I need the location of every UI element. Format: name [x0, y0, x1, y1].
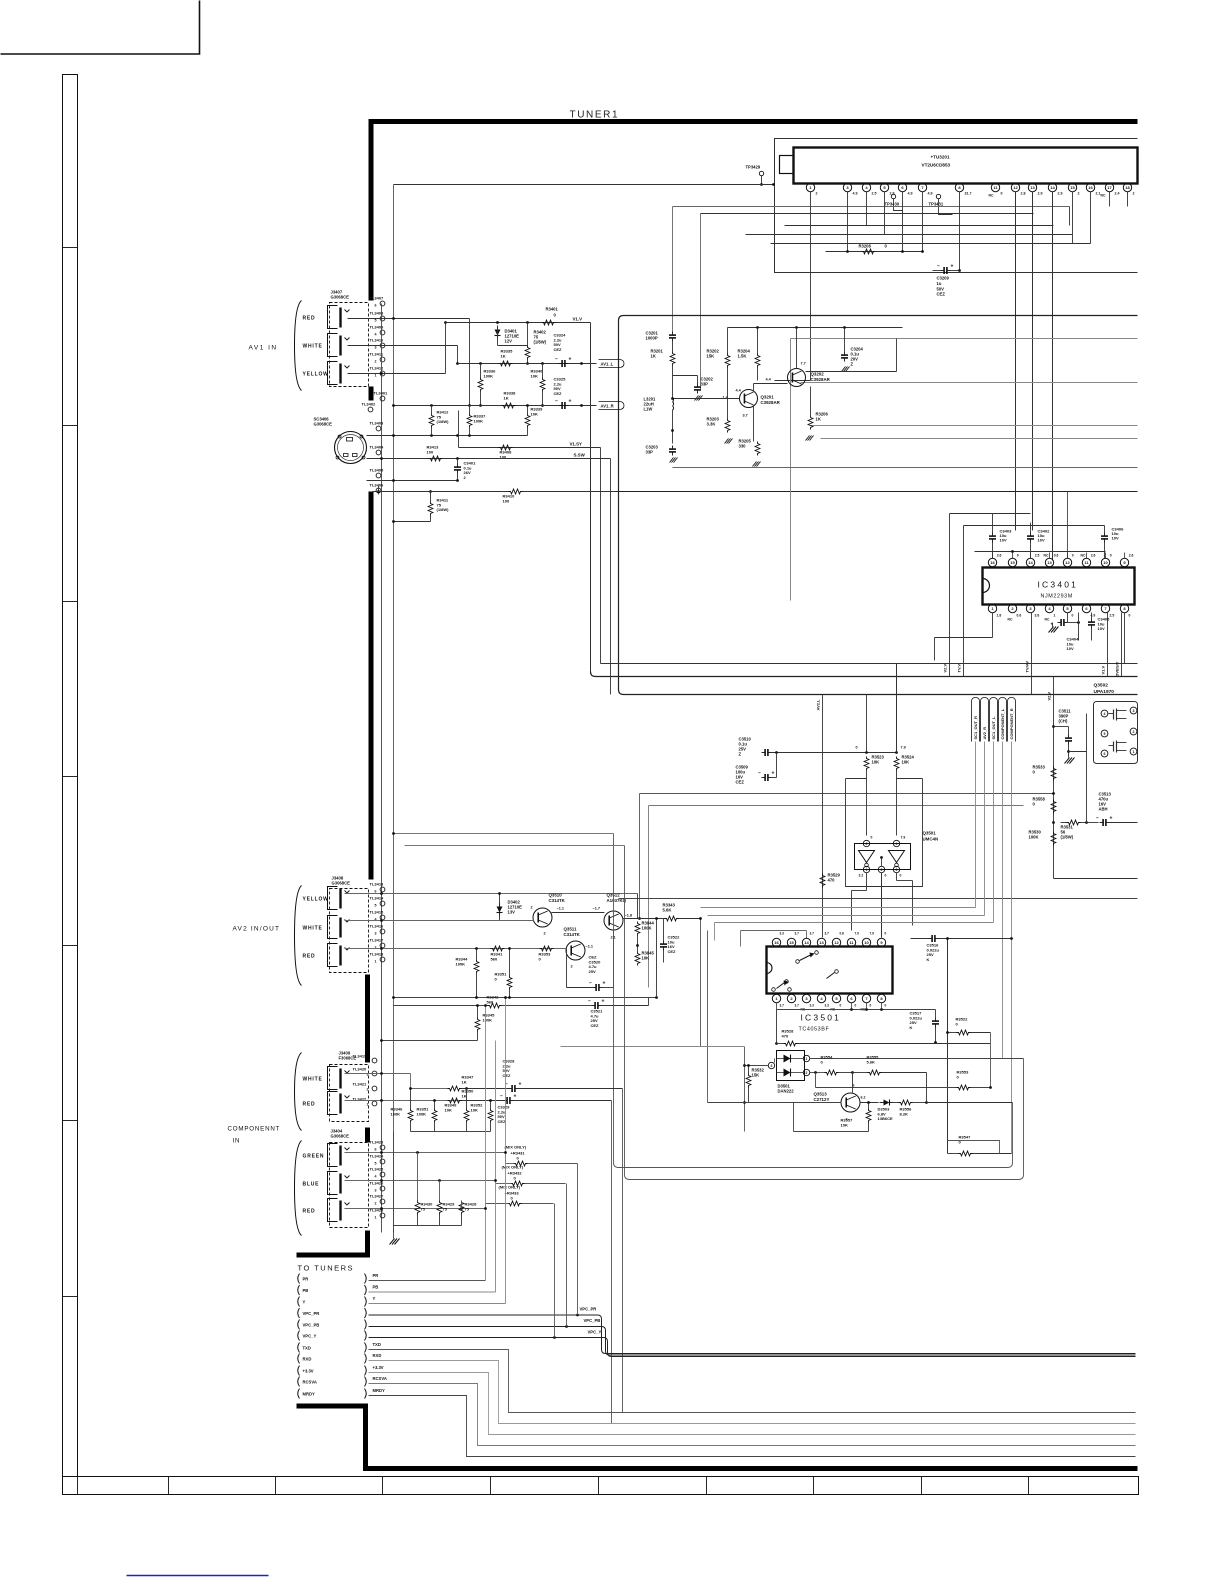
resistor R3523 10K [864, 757, 869, 771]
Q3502 right pin 1 [1130, 748, 1137, 755]
diode D3401 12710E 12V [495, 330, 501, 336]
svg-text:4.4: 4.4 [766, 378, 772, 382]
svg-text:3.2: 3.2 [859, 874, 864, 878]
svg-text:3.3K: 3.3K [707, 422, 716, 427]
wire tuner bus y251 [826, 251, 923, 253]
Q3501 outer loop [846, 779, 923, 887]
block border left bottom segment [363, 1404, 368, 1469]
IC3501 pin 5 [832, 994, 840, 1002]
wire PR [369, 1280, 486, 1282]
block border left segment 3 [369, 492, 374, 880]
svg-text:3.3: 3.3 [810, 1004, 815, 1008]
svg-text:L1W: L1W [644, 407, 653, 412]
IC3501 pin 3 [802, 994, 810, 1002]
node VPC_PR bracket left [298, 1308, 300, 1318]
wire comp green row [345, 1152, 506, 1154]
resistor R3408 100 [499, 445, 513, 450]
wire AV1 white row [348, 345, 458, 347]
svg-text:TL3415: TL3415 [370, 910, 385, 915]
svg-text:WHITE: WHITE [303, 926, 323, 932]
wire supply rail y327 [728, 327, 903, 329]
svg-text:2: 2 [1133, 192, 1135, 196]
block border left segment 1 [369, 120, 374, 301]
wire TV.V vertical [963, 526, 965, 677]
svg-text:RED: RED [303, 316, 316, 322]
tuner pin 12 [1011, 183, 1019, 191]
svg-text:−: − [588, 999, 591, 1005]
svg-text:2.6: 2.6 [1129, 554, 1134, 558]
Q3501 pin 2 [878, 866, 884, 872]
wire pin6 down [902, 192, 904, 252]
block border left segment 5 [365, 1128, 370, 1143]
svg-text:5: 5 [1104, 732, 1106, 736]
svg-text:RCSVA: RCSVA [373, 1376, 387, 1381]
net tag COMPONENT_L [999, 698, 1007, 742]
svg-text:TL3423: TL3423 [370, 1140, 385, 1145]
svg-text:TL3403: TL3403 [370, 421, 385, 426]
svg-text:−: − [1096, 816, 1099, 822]
svg-text:1: 1 [1054, 614, 1056, 618]
svg-text:(1/8W): (1/8W) [437, 507, 450, 512]
strip divider [1028, 1477, 1030, 1495]
svg-text:CEZ: CEZ [498, 1119, 507, 1124]
svg-text:3.7: 3.7 [795, 932, 800, 936]
node VPC_PB bracket left [298, 1320, 300, 1330]
tuner pin 4 [862, 183, 870, 191]
wire V1.V vertical [1107, 613, 1109, 677]
svg-text:TL3427: TL3427 [370, 1194, 385, 1199]
svg-text:+: + [519, 1082, 522, 1088]
IC3501 pin 11 [847, 938, 855, 946]
wire Y [369, 1303, 506, 1305]
wire tag drop x984 [984, 742, 986, 916]
svg-text:100K: 100K [391, 1111, 401, 1116]
svg-text:TL3417: TL3417 [370, 938, 385, 943]
svg-text:2.5: 2.5 [1110, 614, 1115, 618]
ruler tick [63, 601, 78, 603]
block border notch top of TO TUNERS [297, 1253, 371, 1258]
svg-text:DAN222: DAN222 [778, 1089, 795, 1094]
tuner module side notch [780, 156, 794, 174]
svg-text:0: 0 [1129, 614, 1131, 618]
wire tuner bus y234 [746, 234, 1073, 236]
wire pin1 down [810, 192, 812, 381]
wire AV1_R row y405 [394, 405, 597, 407]
wire pin5 stub [1067, 613, 1069, 623]
ruler tick [63, 425, 78, 427]
ground R3205 [753, 462, 757, 467]
IC3501 pin 13 [817, 938, 825, 946]
svg-text:AV2 IN/OUT: AV2 IN/OUT [233, 926, 281, 933]
capacitor C3405 10u 10V [1088, 621, 1095, 623]
svg-text:1K: 1K [504, 395, 509, 400]
svg-text:2.5: 2.5 [872, 192, 877, 196]
svg-text:4: 4 [367, 1060, 369, 1064]
resistor R3529 470 [820, 874, 825, 888]
svg-text:VPC_PB: VPC_PB [303, 1322, 320, 1327]
Q3501 pin 4 [893, 840, 899, 846]
svg-text:13: 13 [1030, 185, 1035, 190]
node RCSVA bracket left [298, 1377, 300, 1387]
svg-text:Q3501: Q3501 [923, 831, 937, 836]
svg-text:RCSVA: RCSVA [303, 1379, 317, 1384]
svg-text:2.6: 2.6 [997, 554, 1002, 558]
bottom revision strip [63, 1477, 1139, 1495]
svg-text:75: 75 [465, 1206, 470, 1211]
blue footer line [127, 1575, 269, 1577]
svg-text:75: 75 [443, 1206, 448, 1211]
svg-text:RED: RED [303, 1102, 316, 1108]
wire loop gray y915 [708, 915, 985, 917]
capacitor C3406 10u 10V [1101, 535, 1108, 537]
svg-text:Z: Z [739, 752, 742, 757]
svg-text:WHITE: WHITE [303, 1077, 323, 1083]
capacitor C3329 2.2u 50V [506, 1097, 508, 1104]
TUNER1 block border top [369, 119, 1138, 124]
net tag AV1_L [599, 360, 625, 368]
svg-text:TV/AV: TV/AV [1025, 661, 1030, 673]
IC3501 pin 1 [772, 994, 780, 1002]
wire tuner bus y213 [701, 213, 1034, 215]
svg-text:13V: 13V [508, 910, 516, 915]
svg-text:+: + [514, 1094, 517, 1100]
svg-text:PB: PB [303, 1288, 309, 1293]
resistor R3845 10K [635, 952, 640, 966]
node PR bracket left [298, 1274, 300, 1284]
wire tag drop x975 [975, 742, 977, 908]
svg-text:0.6: 0.6 [1017, 614, 1022, 618]
svg-text:4.9: 4.9 [928, 192, 933, 196]
diode D3402 12710E 13V [497, 907, 503, 913]
svg-text:0: 0 [1001, 192, 1003, 196]
node VPC_Y bracket left [298, 1331, 300, 1341]
svg-text:+3.3V: +3.3V [373, 1365, 384, 1370]
svg-text:CEZ: CEZ [554, 391, 563, 396]
svg-text:Z: Z [851, 362, 854, 367]
Q3502 pin 6 [1101, 750, 1108, 757]
wire sv row y435 [367, 435, 528, 437]
svg-text:+: + [569, 357, 572, 363]
svg-text:2: 2 [816, 192, 818, 196]
svg-text:G3068CE: G3068CE [331, 1134, 350, 1139]
Q3502 right pin 2 [1130, 728, 1137, 735]
wire y1046 gray [561, 1046, 745, 1048]
svg-text:(M/X ONLY): (M/X ONLY) [505, 1145, 527, 1150]
tuner pin 5 [880, 183, 888, 191]
svg-text:16: 16 [1088, 185, 1093, 190]
wire y1040 bus [382, 1040, 478, 1042]
wire tag drop x1002 [1002, 742, 1004, 1059]
svg-text:10K: 10K [471, 1107, 478, 1112]
svg-text:(M/X ONLY): (M/X ONLY) [499, 1185, 521, 1190]
wire V2.V vertical [949, 514, 951, 677]
svg-text:TP3431: TP3431 [929, 202, 944, 207]
wire Q3510 emitter row [552, 912, 605, 914]
svg-text:10K: 10K [902, 760, 910, 765]
block border bottom [363, 1466, 1138, 1471]
svg-text:Q3202: Q3202 [811, 372, 825, 377]
svg-text:−1.1: −1.1 [557, 907, 565, 911]
svg-text:MRDY: MRDY [303, 1391, 316, 1396]
svg-text:2.6: 2.6 [1091, 554, 1096, 558]
svg-text:33P: 33P [701, 382, 709, 387]
svg-text:+TU3201: +TU3201 [931, 155, 950, 160]
diode D3503 6.8V [884, 1100, 890, 1106]
svg-text:6: 6 [375, 1148, 377, 1152]
capacitor C3402 10u 10V [1027, 535, 1034, 537]
wire gray right y425 [811, 425, 1138, 427]
wire L3201 junction [672, 342, 674, 352]
svg-text:2: 2 [806, 1071, 808, 1075]
IC3401 pin 10 [1101, 558, 1109, 566]
capacitor C3204 0.1u [841, 354, 848, 356]
IC3501 pin 6 [847, 994, 855, 1002]
IC3401 pin 9 [1120, 558, 1128, 566]
wire pin18 down [1127, 192, 1129, 207]
IC3501 pin 15 [787, 938, 795, 946]
ruler tick [63, 776, 78, 778]
svg-text:10K: 10K [642, 956, 650, 961]
strip divider [598, 1477, 600, 1495]
svg-text:18: 18 [1125, 185, 1130, 190]
svg-text:VT2U6CD853: VT2U6CD853 [922, 163, 951, 168]
svg-text:1: 1 [375, 1216, 377, 1220]
svg-text:33P: 33P [646, 450, 654, 455]
svg-text:TL3418: TL3418 [370, 952, 385, 957]
IC3501 pin 9 [877, 938, 885, 946]
svg-text:VPC_PB: VPC_PB [584, 1318, 601, 1323]
title block box top-left [1, 1, 200, 55]
wire +3.3V [369, 1373, 1136, 1435]
svg-text:560: 560 [491, 956, 498, 961]
svg-text:PR: PR [303, 1276, 309, 1281]
svg-text:(1/8W): (1/8W) [437, 419, 450, 424]
svg-text:TL3419: TL3419 [353, 1054, 368, 1059]
svg-text:3.7: 3.7 [795, 1004, 800, 1008]
wire cap rail y551 [975, 551, 1106, 553]
IC3501 pin 7 [862, 994, 870, 1002]
svg-text:Y: Y [303, 1299, 306, 1304]
wire x947 down [947, 939, 949, 1154]
signal loop rect D [625, 846, 1024, 1180]
svg-text:0.6: 0.6 [840, 932, 845, 936]
svg-text:TL3421: TL3421 [353, 1082, 368, 1087]
svg-text:10V: 10V [1000, 538, 1007, 543]
svg-text:BLUE: BLUE [303, 1182, 320, 1188]
wire S.SW drop x610 [610, 459, 612, 695]
wire pin8 down [959, 192, 961, 271]
svg-text:K: K [927, 957, 930, 962]
wire y1087 [816, 1087, 959, 1089]
wire Q3513 row y1102 [708, 1102, 842, 1104]
svg-text:10V: 10V [1067, 646, 1074, 651]
IC3501 pin 14 [802, 938, 810, 946]
analog switch IC3501 body [767, 947, 893, 994]
wire S.SW row y458 [367, 458, 611, 460]
strip divider [77, 1477, 79, 1495]
node RXD bracket right [365, 1354, 367, 1364]
svg-text:+: + [1051, 622, 1054, 627]
svg-text:100K: 100K [456, 961, 466, 966]
node Y bracket left [298, 1297, 300, 1307]
svg-text:31.7: 31.7 [965, 192, 972, 196]
svg-text:NC: NC [1044, 554, 1049, 558]
svg-text:TL3406: TL3406 [370, 483, 385, 488]
node +3.3V bracket right [365, 1366, 367, 1376]
wire x990 drop [990, 1033, 992, 1088]
svg-text:12V: 12V [505, 339, 513, 344]
wire gnd bus y1225 [394, 1225, 462, 1227]
wire gray vertical x790 [790, 339, 792, 601]
ruler tick [63, 1120, 78, 1122]
svg-text:3: 3 [375, 932, 377, 936]
svg-text:0: 0 [1110, 554, 1112, 558]
transistor Q3510 C314TK [533, 908, 552, 927]
wire y898 out [619, 898, 1138, 900]
svg-text:10K: 10K [841, 1122, 848, 1127]
svg-text:0: 0 [1072, 554, 1074, 558]
svg-text:RXD: RXD [303, 1356, 312, 1361]
svg-text:−1.8: −1.8 [625, 914, 633, 918]
tuner pin 7 [918, 183, 926, 191]
IC3401 pin 5 [1063, 604, 1071, 612]
svg-text:1: 1 [367, 1103, 369, 1107]
svg-text:3.3: 3.3 [780, 932, 785, 936]
wire comp blue row [345, 1180, 496, 1182]
svg-text:14: 14 [1028, 560, 1033, 565]
svg-text:100K: 100K [484, 373, 494, 378]
tuner pin 13 [1028, 183, 1036, 191]
svg-text:14: 14 [1050, 185, 1055, 190]
svg-text:470: 470 [782, 1033, 789, 1038]
svg-text:2.9: 2.9 [1058, 192, 1063, 196]
svg-text:0: 0 [870, 1004, 872, 1008]
net tag AV1_R [599, 402, 625, 410]
svg-text:10: 10 [864, 940, 869, 945]
IC3401 pin 7 [1101, 604, 1109, 612]
svg-text:25V: 25V [589, 969, 596, 974]
svg-text:−: − [758, 771, 761, 777]
wire drop x639 to AV2 [639, 794, 641, 919]
wire C3201 feed vertical [672, 207, 674, 332]
signal bus x393 [393, 185, 395, 1233]
node PB bracket right [365, 1285, 367, 1295]
svg-text:Q3510: Q3510 [549, 893, 563, 898]
svg-text:TXD: TXD [303, 1345, 311, 1350]
svg-text:DVBS/Y: DVBS/Y [1115, 661, 1120, 676]
capacitor C3209 1u 50V [943, 267, 945, 274]
svg-text:5: 5 [375, 1162, 377, 1166]
svg-text:IC3501: IC3501 [801, 1013, 842, 1023]
svg-text:TP3430: TP3430 [885, 202, 900, 207]
svg-text:TL3413: TL3413 [370, 882, 385, 887]
wire tuner bus y243 [771, 243, 1091, 245]
svg-text:15K: 15K [752, 1073, 760, 1078]
wire pin3 down [847, 192, 849, 252]
wire VPC_PR [369, 1314, 598, 1316]
svg-text:COMPONENT_L: COMPONENT_L [1000, 708, 1005, 739]
svg-text:TP3429: TP3429 [746, 165, 761, 170]
wire q3512 out down x700 [700, 919, 702, 1047]
resistor R3432 [511, 1181, 525, 1186]
svg-text:6: 6 [1104, 752, 1106, 756]
svg-text:10V: 10V [1112, 536, 1119, 541]
ruler tick [63, 247, 78, 249]
wire Q3502 col x1086 [1086, 714, 1088, 823]
svg-text:−: − [589, 981, 592, 987]
strip divider [490, 1477, 492, 1495]
capacitor C3521 4.7u 25V [594, 1002, 596, 1009]
wire pin5 down [884, 192, 886, 235]
svg-text:3: 3 [375, 1189, 377, 1193]
Q3502 pin 5 [1101, 730, 1108, 737]
svg-text:7.9: 7.9 [901, 836, 906, 840]
svg-text:V1.SY: V1.SY [570, 442, 583, 447]
svg-text:1: 1 [866, 868, 868, 872]
svg-text:TUNER1: TUNER1 [570, 110, 620, 121]
wire pin14 down long [1052, 192, 1054, 561]
wire VPC_Y vertical [554, 1204, 556, 1338]
svg-text:YELLOW: YELLOW [303, 372, 329, 378]
wire MRDY [369, 1396, 1136, 1457]
svg-text:0: 0 [840, 1004, 842, 1008]
capacitor C3403 10u 10V [989, 535, 996, 537]
wire TL3406 stub [378, 486, 380, 495]
AV1 bracket [295, 301, 302, 391]
svg-text:CEZ: CEZ [937, 292, 946, 297]
wire PB [369, 1291, 496, 1293]
net tag SC1_OUT_R [972, 698, 980, 742]
transistor Q3512 A1037KQ [604, 911, 623, 930]
svg-text:−1.7: −1.7 [593, 907, 601, 911]
svg-text:C3209: C3209 [937, 276, 950, 281]
wire AV2 red row [345, 948, 567, 950]
block border left segment 6 [365, 1231, 370, 1255]
wire V1.SY row y447 [459, 447, 601, 449]
wire TL3405 row y480 [367, 480, 458, 482]
svg-text:10K: 10K [531, 373, 538, 378]
wire AV1_L row y363 [458, 363, 597, 365]
svg-text:+: + [772, 771, 775, 777]
svg-text:100K: 100K [483, 1017, 493, 1022]
svg-text:TXD: TXD [373, 1342, 381, 1347]
svg-text:4.9: 4.9 [853, 192, 858, 196]
svg-text:G3068CE: G3068CE [314, 422, 333, 427]
svg-text:VPC_PR: VPC_PR [580, 1307, 597, 1312]
IC3501 pin 16 [772, 938, 780, 946]
svg-text:7.9: 7.9 [901, 746, 906, 750]
svg-text:13: 13 [819, 940, 824, 945]
svg-text:2: 2 [375, 1202, 377, 1206]
svg-text:2: 2 [1078, 192, 1080, 196]
svg-text:AV1_R: AV1_R [601, 403, 614, 408]
svg-text:VPC_Y: VPC_Y [588, 1330, 602, 1335]
svg-text:ABH: ABH [1099, 807, 1108, 812]
svg-text:K: K [910, 1025, 913, 1030]
node RXD bracket left [298, 1354, 300, 1364]
wire Q3202 emitter out [806, 371, 897, 373]
svg-text:6: 6 [375, 304, 377, 308]
wire VPC_PB vertical [566, 1184, 568, 1327]
svg-text:IC3401: IC3401 [1038, 580, 1079, 590]
wire IC3401 pin1 down [992, 613, 994, 638]
node MRDY bracket left [298, 1389, 300, 1399]
svg-text:3.7: 3.7 [825, 932, 830, 936]
resistor R3844 100K [635, 922, 640, 936]
resistor R3524 10K [894, 757, 899, 771]
svg-text:TL3407: TL3407 [370, 296, 385, 301]
svg-text:1.8: 1.8 [997, 614, 1002, 618]
